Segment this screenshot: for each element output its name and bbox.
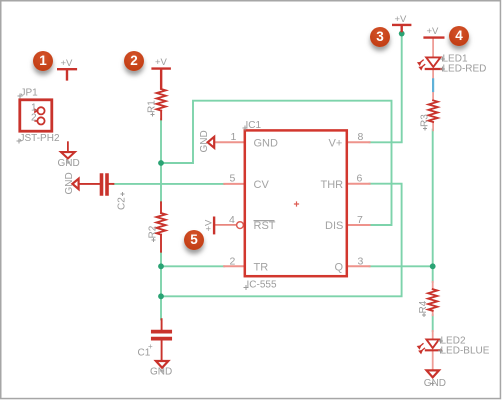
- connector JP1 pin circles: [37, 107, 44, 114]
- wire V+ pin8 to +V rail: [370, 34, 402, 142]
- svg-text:7: 7: [357, 214, 363, 226]
- svg-text:4: 4: [229, 214, 235, 226]
- wire R3 bottom down to node D: [432, 130, 434, 267]
- svg-text:8: 8: [358, 131, 364, 143]
- lead R1 top is +V stub / bottom lead: [160, 111, 162, 120]
- svg-text:5: 5: [230, 173, 236, 185]
- origin mark LED-RED: [440, 67, 445, 72]
- svg-text:GND: GND: [199, 130, 210, 152]
- lead C1 to gnd: [161, 341, 163, 361]
- callout 4: [449, 26, 469, 46]
- ground below JP1: lead: [67, 142, 69, 152]
- power +V rail (callout 3): [393, 25, 410, 31]
- svg-text:+V: +V: [427, 26, 440, 37]
- junction node D: [430, 263, 436, 269]
- svg-text:R1: R1: [147, 100, 158, 113]
- svg-text:GND: GND: [58, 158, 80, 169]
- svg-text:2: 2: [31, 113, 37, 124]
- origin mark R2: [152, 238, 156, 242]
- pin 6 stub (THR): [347, 183, 370, 185]
- lead C2 gnd to plate: [79, 183, 100, 185]
- pin 8 stub (V+): [347, 141, 370, 143]
- lead green segment to LED2: [432, 331, 434, 339]
- lead R3 bottom: [432, 122, 434, 130]
- power +V above LED1: [425, 36, 444, 38]
- svg-text:+: +: [148, 342, 153, 351]
- ground below JP1: triangle: [61, 152, 75, 158]
- wire Q pin3 to node D: [370, 265, 433, 267]
- svg-text:+V: +V: [204, 219, 215, 232]
- origin mark LED1: [440, 57, 445, 62]
- wire node A to R2 top: [160, 163, 162, 203]
- led LED2 cathode bar: [426, 349, 441, 351]
- svg-text:V+: V+: [329, 137, 343, 149]
- svg-text:GND: GND: [424, 378, 446, 389]
- origin mark R1: [151, 113, 155, 117]
- svg-text:2: 2: [230, 256, 236, 268]
- lead R2 bottom: [160, 235, 162, 252]
- svg-text:IC-555: IC-555: [247, 280, 277, 291]
- resistor R2: [156, 213, 165, 235]
- svg-text:C2: C2: [117, 197, 128, 210]
- origin mark LED-BLUE: [438, 349, 443, 354]
- lead R4 bottom: [432, 310, 434, 315]
- pin 4 inversion bubble: [237, 222, 244, 229]
- connector JP1 box: [20, 100, 52, 131]
- connector JP1 pin tails: [35, 111, 37, 121]
- svg-text:IC1: IC1: [246, 120, 262, 131]
- svg-text:Q: Q: [335, 261, 344, 273]
- origin mark C2: [121, 192, 125, 196]
- capacitor C2 plates: [102, 175, 108, 194]
- lead R2 top: [160, 202, 162, 213]
- origin mark JP1: [18, 94, 23, 99]
- junction node C: [158, 293, 164, 299]
- svg-text:R4: R4: [418, 300, 429, 313]
- origin mark JST-PH2: [17, 139, 22, 144]
- led LED1 light arrows: [419, 60, 425, 68]
- capacitor C1 plates (polarized): [153, 332, 170, 339]
- svg-text:GND: GND: [150, 367, 172, 378]
- origin mark GND-JP1 cross: [66, 160, 70, 164]
- lead C2 right nub: [109, 183, 114, 185]
- wire segment between R4 and LED2: [432, 315, 434, 331]
- svg-text:LED-BLUE: LED-BLUE: [441, 346, 490, 357]
- svg-text:GND: GND: [64, 172, 75, 194]
- op IC1 555 body: [245, 130, 347, 276]
- svg-text:GND: GND: [254, 137, 279, 149]
- origin mark IC-555: [244, 285, 249, 290]
- resistor R1: [157, 89, 166, 111]
- callout 5: [184, 230, 204, 250]
- callout 2: [124, 51, 144, 71]
- pin 1 stub (GND): [215, 141, 245, 143]
- led LED1 triangle: [426, 57, 440, 67]
- lead LED2 to GND: [432, 351, 434, 370]
- svg-text:3: 3: [358, 256, 364, 268]
- ground at C2 (left-pointing): [72, 179, 78, 189]
- svg-text:JP1: JP1: [21, 88, 39, 99]
- svg-text:+V: +V: [395, 14, 408, 25]
- led LED2 light arrows: [419, 344, 425, 352]
- wire node D to R4 top: [432, 266, 434, 282]
- junction node B: [158, 263, 164, 269]
- svg-text:JST-PH2: JST-PH2: [20, 133, 60, 144]
- origin mark R4: [422, 313, 426, 317]
- lead +V4 to LED1: [432, 38, 434, 58]
- power +V above R1: [153, 69, 170, 89]
- RST overline: [254, 220, 275, 222]
- led LED2 triangle: [426, 339, 439, 348]
- origin mark LED2: [438, 339, 443, 344]
- resistor R3: [429, 100, 438, 122]
- wire THR pin6 down-around to node C: [161, 184, 402, 297]
- wire TR pin2 to node B: [161, 265, 224, 267]
- pin 5 stub (CV): [224, 183, 244, 185]
- svg-text:LED-RED: LED-RED: [443, 64, 487, 75]
- svg-text:R3: R3: [420, 114, 431, 127]
- origin mark GND-C1 cross: [160, 369, 164, 373]
- origin mark R3: [423, 127, 427, 131]
- lead LED1 to blue segment: [432, 70, 434, 80]
- callout 1: [33, 51, 53, 71]
- svg-text:RST: RST: [254, 220, 276, 232]
- svg-text:TR: TR: [254, 261, 269, 273]
- blue net segment between LED1 and R3: [432, 79, 434, 91]
- power +V (callout 1) bar: [58, 69, 76, 79]
- callout 3: [370, 27, 390, 47]
- svg-text:CV: CV: [254, 179, 270, 191]
- svg-text:+V: +V: [61, 58, 74, 69]
- origin mark GND-LED2 cross: [431, 382, 435, 386]
- lead wire to C1 top: [161, 319, 163, 330]
- wire R1 bottom to node A: [160, 119, 162, 163]
- svg-text:DIS: DIS: [325, 220, 343, 232]
- wire R2 bottom to node B to node C to C1: [160, 252, 162, 320]
- junction node A: [158, 160, 164, 166]
- ground at pin1 (left-pointing): [208, 137, 215, 148]
- led LED1 cathode bar: [426, 68, 441, 70]
- svg-text:+V: +V: [155, 57, 168, 68]
- pin 3 stub (Q): [347, 265, 370, 267]
- pin 4 stub (RST) with +V: [214, 224, 236, 226]
- ground below LED2: triangle: [427, 370, 440, 377]
- svg-text:THR: THR: [321, 179, 344, 191]
- IC1 origin cross: [295, 202, 299, 206]
- ground below C1: triangle: [156, 361, 168, 368]
- svg-text:1: 1: [231, 131, 237, 143]
- power +V at RST pin (rotated): [213, 218, 215, 234]
- pin 7 stub (DIS): [347, 224, 370, 226]
- svg-text:R2: R2: [148, 225, 159, 238]
- wire node A to DIS (pin7) around top of IC: [161, 101, 392, 225]
- junction at +V rail (3): [399, 31, 405, 37]
- resistor R4: [428, 289, 437, 311]
- wire C2 to CV pin5: [113, 183, 224, 185]
- svg-text:6: 6: [357, 173, 363, 185]
- origin mark IC1: [243, 126, 248, 131]
- lead into R4 top: [432, 282, 434, 290]
- lead blue segment to R3: [432, 91, 434, 100]
- pin 2 stub (TR): [224, 265, 245, 267]
